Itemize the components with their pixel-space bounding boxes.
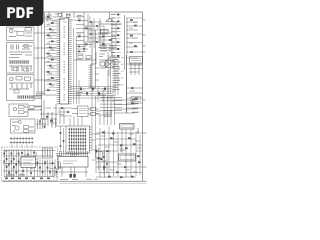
resistor R5 xyxy=(16,77,22,81)
resistor R1 xyxy=(25,28,32,31)
capacitor C6b xyxy=(18,120,21,123)
wire bus under U1 xyxy=(36,92,44,95)
resistor center 56 xyxy=(78,56,83,59)
component cluster left of box E bank xyxy=(50,118,57,128)
wire xyxy=(58,167,88,177)
wire bundle mid right xyxy=(100,98,122,111)
caption text bottom left xyxy=(6,174,15,176)
component cluster right of U8 xyxy=(100,62,105,66)
resistor R3 xyxy=(14,68,19,71)
wire center-right links xyxy=(92,64,101,160)
IC U1 vertical label xyxy=(63,26,65,102)
wire xyxy=(74,52,96,64)
small box right of keypad xyxy=(96,152,103,159)
component cluster above U3 xyxy=(22,149,34,157)
component string right of keypad xyxy=(96,145,99,173)
tiny text on branches xyxy=(133,22,137,24)
IC U2 label row dark xyxy=(10,60,11,63)
wire supply rails xyxy=(3,151,55,177)
IC U8 left pins xyxy=(89,66,92,88)
wire fan to arrows xyxy=(115,100,138,113)
wire branches lower bus xyxy=(127,88,143,108)
tiny text mid right corner xyxy=(96,110,101,112)
wire xyxy=(100,18,116,50)
capacitor bank right of E xyxy=(37,119,47,129)
tiny text center 58 xyxy=(77,58,82,60)
wire fan verticals xyxy=(98,86,113,102)
wire verticals bundle xyxy=(104,95,115,125)
wire xyxy=(9,31,32,37)
resistor in E xyxy=(24,126,29,129)
wire xyxy=(98,95,110,125)
component strings left of keypad xyxy=(61,126,64,152)
tiny text fan labels xyxy=(76,92,83,94)
IC U4 DIP xyxy=(58,157,88,168)
label box lower bus xyxy=(131,96,141,101)
capacitor C1 xyxy=(10,30,13,33)
IC U1 left pins xyxy=(57,20,60,104)
wire xyxy=(95,68,99,80)
wire verticals center upper xyxy=(90,16,94,48)
wire xyxy=(12,122,34,131)
resistor right of Y1 xyxy=(91,108,96,111)
IC Y1 box xyxy=(78,106,89,117)
component rows center 45-53 xyxy=(76,47,88,52)
component mid strings U3 below xyxy=(23,167,35,177)
resistor array left of U1 xyxy=(45,16,57,18)
junction dots center xyxy=(92,24,93,25)
resistor right of D xyxy=(30,106,35,109)
wire below label xyxy=(9,66,32,72)
component below U1 xyxy=(58,108,72,116)
capacitor row on fan xyxy=(80,88,82,91)
PDF badge xyxy=(0,0,44,26)
wire vertical feeds xyxy=(38,13,45,119)
capacitor C3 xyxy=(9,77,13,81)
wire right column xyxy=(109,52,112,76)
keypad matrix pads xyxy=(68,128,87,130)
wire verticals into box top xyxy=(12,145,32,148)
wire into keypad columns xyxy=(70,116,82,126)
wire top border xyxy=(43,11,143,13)
wire vertical right of U1 xyxy=(74,28,79,104)
tiny text rows right of center xyxy=(100,45,107,47)
wire branches right top xyxy=(126,18,143,64)
capacitor pair below U4 xyxy=(70,174,72,178)
IC U3 regulator xyxy=(21,157,36,168)
resistor row labels right top xyxy=(111,14,116,16)
net labels on bus xyxy=(113,56,121,58)
wire vertical left of bus xyxy=(108,56,111,94)
tiny text supply xyxy=(38,157,42,159)
capacitor C2 pair xyxy=(11,45,19,50)
wire below keypad xyxy=(56,153,88,155)
tiny text lower bus xyxy=(130,90,135,92)
resistor on branches xyxy=(130,19,133,21)
wire xyxy=(56,108,66,126)
component cluster right of bus xyxy=(130,57,143,64)
module box B IF xyxy=(7,43,35,74)
wire fan from U1 to right xyxy=(70,86,116,88)
IC U4 top pins xyxy=(60,151,88,157)
resistor cluster center mid xyxy=(98,33,116,48)
wire xyxy=(36,152,61,168)
connector CN1 right pins xyxy=(89,127,92,150)
capacitor trio mid right xyxy=(104,111,112,117)
capacitor C6 xyxy=(15,126,19,130)
wire horizontals right bottom xyxy=(96,133,142,177)
capacitor right of supply xyxy=(59,162,61,170)
wire bus vertical right xyxy=(126,55,128,113)
wire verticals right xyxy=(125,15,128,70)
wire right border xyxy=(142,12,144,181)
wire xyxy=(72,109,99,115)
ticks past right border xyxy=(143,20,147,167)
tiny text right xyxy=(99,53,105,55)
caption text above bottom border xyxy=(86,178,92,180)
component row above supply xyxy=(10,139,34,143)
module box D xyxy=(9,104,28,116)
ground symbols xyxy=(120,128,140,151)
capacitor bank supply right xyxy=(37,160,39,177)
tiny text supply left xyxy=(4,151,8,153)
component strings far right of keypad xyxy=(104,150,107,175)
caption text bottom mid xyxy=(60,179,68,181)
capacitor C5 xyxy=(13,107,17,111)
wire verticals right column mid xyxy=(108,52,118,95)
resistor scatter right bottom xyxy=(102,132,105,134)
IC U5 small xyxy=(101,30,109,35)
wire verticals center xyxy=(84,12,96,64)
tiny text right bottom xyxy=(101,135,106,137)
resistor supply bottom row xyxy=(5,178,8,180)
component strings left of DIP xyxy=(54,168,57,178)
IC U7 highlighted xyxy=(119,154,136,161)
resistor R2 xyxy=(17,32,24,36)
keypad label xyxy=(70,155,79,157)
module box C video xyxy=(7,75,35,101)
transistor Q1 xyxy=(106,18,113,22)
coil L1 top xyxy=(45,16,76,22)
net arrow labels xyxy=(132,98,139,100)
IC U6 highlighted xyxy=(120,124,135,130)
component rows center upper xyxy=(88,22,104,42)
connector label row dark xyxy=(17,95,20,98)
wire cluster below U1 xyxy=(40,100,58,126)
crystal X1 box xyxy=(106,61,115,68)
wire xyxy=(42,95,57,119)
resistor R6 xyxy=(14,90,19,93)
module box E xyxy=(11,119,36,133)
junction dots on fan xyxy=(83,88,84,89)
IC U4 label xyxy=(63,161,77,164)
PDF badge text xyxy=(7,7,33,18)
IC U1 main processor xyxy=(60,18,69,104)
wire xyxy=(9,83,33,89)
keypad column wires xyxy=(69,128,85,153)
transformer T2 xyxy=(43,148,53,158)
power supply dashed box xyxy=(2,147,58,181)
tiny text right of center 45-52 xyxy=(100,45,107,47)
resistor rows center top xyxy=(76,17,92,45)
capacitor row top edge xyxy=(46,12,82,18)
wire left links xyxy=(28,33,58,110)
wire xyxy=(9,55,32,58)
tiny text below U1 xyxy=(45,107,51,109)
IC U8 vertical driver xyxy=(91,64,95,88)
wire comb from C xyxy=(34,96,42,99)
wire bottom border xyxy=(2,180,147,182)
diode strings left xyxy=(3,149,5,177)
connector CN1 keypad box xyxy=(66,126,90,153)
module box A tuner xyxy=(7,27,35,40)
wire verticals right bottom xyxy=(100,126,140,178)
resistor R7 xyxy=(19,106,25,109)
wire xyxy=(24,107,28,112)
junction dots right bottom xyxy=(104,132,105,133)
IC U1 right pins xyxy=(69,20,72,104)
resistor network top B xyxy=(9,46,32,52)
